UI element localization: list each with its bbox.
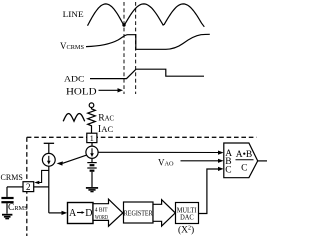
svg-text:2: 2 (26, 182, 31, 192)
svg-text:A: A (69, 208, 77, 219)
svg-text:CRMS: CRMS (1, 172, 24, 182)
svg-text:1: 1 (90, 133, 94, 143)
svg-text:CRMS: CRMS (8, 203, 28, 213)
svg-text:4 BIT: 4 BIT (95, 206, 108, 213)
svg-text:C: C (225, 165, 231, 175)
svg-text:D: D (85, 208, 92, 219)
svg-text:DAC: DAC (180, 214, 194, 222)
svg-text:REGISTER: REGISTER (124, 209, 153, 217)
svg-text:ADC: ADC (64, 74, 85, 84)
svg-text:C: C (241, 164, 247, 174)
svg-text:HOLD: HOLD (66, 87, 97, 98)
svg-text:A•B: A•B (236, 150, 253, 160)
svg-text:(X2): (X2) (178, 225, 194, 236)
svg-text:IAC: IAC (98, 124, 114, 135)
svg-text:LINE: LINE (63, 9, 84, 19)
svg-text:WORD: WORD (95, 214, 108, 221)
